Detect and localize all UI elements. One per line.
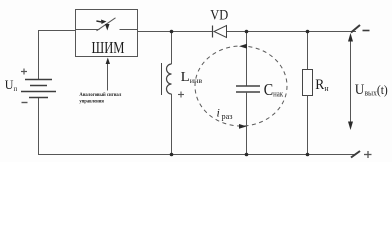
svg-text:Cнак: Cнак — [264, 80, 283, 99]
svg-text:раз: раз — [222, 111, 234, 121]
svg-text:VD: VD — [210, 8, 228, 24]
svg-text:Rн: Rн — [315, 77, 329, 93]
svg-text:i: i — [217, 106, 220, 120]
svg-text:ШИМ: ШИМ — [92, 38, 125, 57]
svg-text:Uп: Uп — [5, 77, 17, 93]
svg-text:Uвых(t): Uвых(t) — [355, 82, 388, 98]
svg-text:Lинв: Lинв — [181, 69, 203, 85]
svg-text:управления: управления — [79, 100, 104, 105]
svg-text:Аналоговый сигнал: Аналоговый сигнал — [79, 93, 121, 98]
